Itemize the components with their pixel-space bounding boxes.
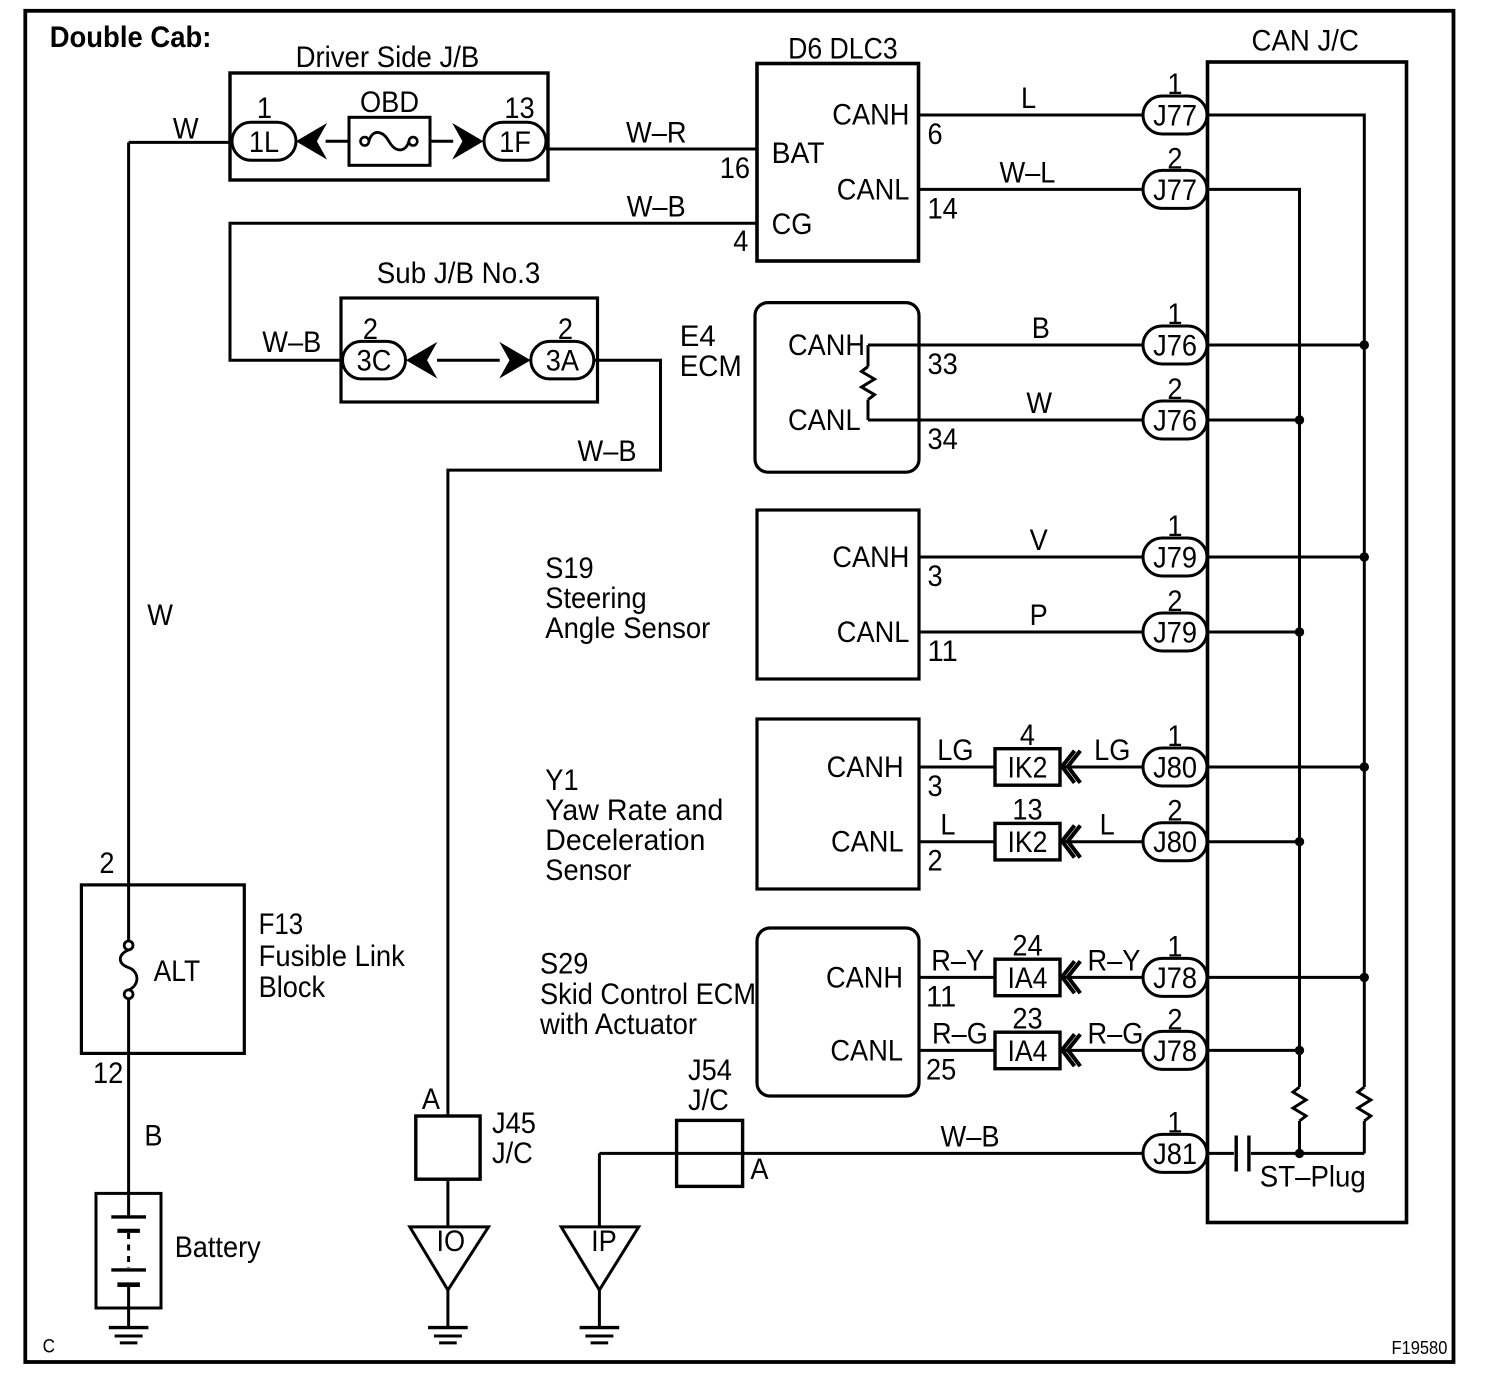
wire W-R — [546, 148, 757, 151]
svg-text:F13: F13 — [259, 908, 304, 941]
ground symbol IP — [580, 1326, 620, 1329]
wire into fuse ALT — [127, 885, 130, 941]
svg-text:CANL: CANL — [788, 404, 861, 437]
battery plate long 2 — [111, 1268, 146, 1271]
CANL bus wire — [1207, 189, 1299, 1087]
svg-text:J81: J81 — [1153, 1138, 1197, 1171]
svg-text:Sub J/B No.3: Sub J/B No.3 — [377, 257, 541, 290]
wire 3C to 3A — [437, 359, 500, 362]
junction dot J79-2 — [1295, 627, 1304, 636]
svg-text:3: 3 — [928, 770, 943, 803]
connector marker IK2 lower — [1062, 826, 1075, 858]
battery dashed cells — [127, 1233, 130, 1268]
svg-text:IA4: IA4 — [1008, 1035, 1048, 1068]
svg-text:CG: CG — [772, 208, 813, 241]
svg-text:16: 16 — [720, 152, 750, 185]
wire ALT to battery — [127, 999, 130, 1194]
junction dot J80-1 — [1360, 762, 1369, 771]
wire W-B from IP to J81 — [599, 1152, 1143, 1155]
svg-text:3A: 3A — [546, 345, 579, 378]
svg-text:CANL: CANL — [837, 616, 910, 649]
junction dot J76-1 — [1360, 340, 1369, 349]
svg-text:R–Y: R–Y — [931, 944, 984, 977]
svg-text:33: 33 — [928, 348, 958, 381]
junction box Driver Side J/B — [230, 73, 548, 180]
junction connector J45 — [416, 1116, 480, 1179]
svg-text:2: 2 — [99, 847, 114, 880]
junction box Sub J/B No.3 — [341, 298, 598, 402]
svg-text:Fusible Link: Fusible Link — [259, 940, 406, 973]
svg-text:CAN J/C: CAN J/C — [1252, 25, 1359, 58]
svg-text:3: 3 — [928, 560, 943, 593]
wire IO to ground — [446, 1290, 449, 1328]
svg-text:14: 14 — [928, 193, 958, 226]
battery plate short 1 — [117, 1229, 139, 1233]
connector marker IA4 upper — [1062, 961, 1075, 993]
svg-text:IK2: IK2 — [1008, 826, 1048, 859]
wire battery to ground — [127, 1285, 130, 1328]
stub J78-1 to CANH bus — [1207, 976, 1364, 979]
component D6 DLC3 — [757, 64, 919, 262]
junction block CAN J/C — [1208, 62, 1407, 1223]
svg-text:IP: IP — [591, 1225, 617, 1258]
junction connector J78 pin 2 — [1143, 1031, 1207, 1069]
svg-text:25: 25 — [926, 1053, 956, 1086]
wire W-L — [919, 188, 1144, 191]
svg-text:L: L — [940, 809, 955, 842]
component E4 ECM — [755, 303, 919, 473]
svg-text:J79: J79 — [1153, 617, 1197, 650]
svg-text:W–R: W–R — [626, 116, 687, 149]
wire CANH to resistor — [867, 345, 870, 367]
svg-text:J45: J45 — [492, 1107, 536, 1140]
svg-text:B: B — [1032, 312, 1050, 345]
connector IK2 lower — [995, 823, 1060, 860]
connector IA4 upper — [995, 959, 1060, 996]
stub J76-2 to CANL bus — [1207, 419, 1299, 422]
svg-text:J77: J77 — [1153, 100, 1197, 133]
svg-text:Double Cab:: Double Cab: — [50, 21, 212, 54]
svg-text:J54: J54 — [688, 1054, 732, 1087]
wire J81 to ST-Plug capacitor — [1207, 1152, 1234, 1155]
connector 1L — [232, 122, 296, 160]
connector marker IA4 lower — [1062, 1034, 1075, 1066]
wire W-B from CG to 3C — [230, 223, 757, 360]
svg-text:CANL: CANL — [837, 174, 910, 207]
svg-text:L: L — [1100, 809, 1115, 842]
svg-text:IA4: IA4 — [1008, 962, 1048, 995]
svg-text:1F: 1F — [499, 126, 531, 159]
splice arrow right 3A — [501, 343, 530, 377]
terminating resistor CANH — [1358, 1087, 1371, 1121]
stub J78-2 to CANL bus — [1207, 1049, 1299, 1052]
svg-text:Yaw Rate and: Yaw Rate and — [545, 794, 723, 827]
svg-text:LG: LG — [1094, 734, 1130, 767]
junction dot J78-1 — [1360, 973, 1369, 982]
wire L left Y1 — [919, 840, 995, 843]
fuse OBD — [349, 117, 430, 165]
fusible link ALT — [124, 941, 133, 950]
wire R-G right — [1060, 1049, 1143, 1052]
svg-text:J76: J76 — [1153, 330, 1197, 363]
svg-text:S29: S29 — [540, 948, 588, 981]
junction connector J79 pin 1 — [1143, 538, 1207, 576]
svg-text:IK2: IK2 — [1008, 752, 1048, 785]
svg-text:12: 12 — [93, 1057, 123, 1090]
svg-text:J/C: J/C — [688, 1084, 729, 1117]
svg-text:W–B: W–B — [941, 1120, 1000, 1153]
svg-text:CANL: CANL — [831, 826, 904, 859]
svg-text:ALT: ALT — [154, 955, 201, 988]
svg-text:Driver Side J/B: Driver Side J/B — [296, 41, 480, 74]
wire R-Y right — [1060, 976, 1143, 979]
wire R-Y left — [919, 976, 995, 979]
svg-text:W: W — [147, 599, 173, 632]
svg-text:J79: J79 — [1153, 542, 1197, 575]
wire LG left — [919, 766, 995, 769]
junction connector J77 pin 2 — [1143, 170, 1207, 208]
svg-text:F19580: F19580 — [1392, 1338, 1448, 1358]
wire J45 to IO — [446, 1179, 449, 1227]
junction dot CANL bottom — [1295, 1149, 1304, 1158]
junction connector J77 pin 1 — [1143, 96, 1207, 134]
ground symbol IO — [428, 1326, 468, 1329]
svg-text:ST–Plug: ST–Plug — [1260, 1161, 1366, 1194]
svg-text:IO: IO — [437, 1225, 466, 1258]
capacitor ST-Plug — [1234, 1136, 1237, 1172]
svg-text:CANH: CANH — [832, 541, 909, 574]
svg-text:CANH: CANH — [826, 961, 903, 994]
svg-text:J77: J77 — [1153, 174, 1197, 207]
svg-text:Sensor: Sensor — [545, 854, 631, 887]
stub J76-1 to CANH bus — [1207, 344, 1364, 347]
wire L right Y1 — [1060, 840, 1143, 843]
svg-text:with Actuator: with Actuator — [539, 1008, 697, 1041]
ground point IO — [410, 1227, 489, 1290]
svg-text:4: 4 — [733, 225, 748, 258]
component S29 Skid Control ECM with Actuator — [757, 928, 919, 1096]
svg-text:Steering: Steering — [545, 582, 646, 615]
component Y1 Yaw Rate and Deceleration Sensor — [757, 719, 919, 889]
svg-text:C: C — [43, 1336, 55, 1357]
wire capacitor to buses — [1251, 1152, 1364, 1155]
svg-text:CANH: CANH — [788, 329, 865, 362]
wire V — [919, 556, 1143, 559]
connector IA4 lower — [995, 1032, 1060, 1069]
svg-text:J80: J80 — [1153, 752, 1197, 785]
svg-text:W–B: W–B — [627, 190, 686, 223]
svg-text:W: W — [1026, 387, 1052, 420]
svg-text:24: 24 — [1012, 929, 1042, 962]
battery plate long 1 — [111, 1215, 146, 1218]
junction connector J80 pin 2 — [1143, 823, 1207, 861]
svg-text:D6 DLC3: D6 DLC3 — [788, 33, 898, 66]
svg-text:1: 1 — [257, 92, 272, 125]
svg-text:Skid Control ECM: Skid Control ECM — [540, 978, 756, 1011]
svg-text:J78: J78 — [1153, 962, 1197, 995]
svg-text:W–B: W–B — [578, 435, 637, 468]
wire P — [919, 631, 1143, 634]
wire W — [868, 419, 1143, 422]
ground symbol battery — [109, 1326, 149, 1329]
svg-text:J/C: J/C — [492, 1137, 533, 1170]
svg-text:J78: J78 — [1153, 1035, 1197, 1068]
svg-text:Y1: Y1 — [545, 764, 578, 797]
wire B — [868, 344, 1143, 347]
wire LG right — [1060, 766, 1143, 769]
junction dot J78-2 — [1295, 1046, 1304, 1055]
svg-text:2: 2 — [928, 845, 943, 878]
wire W-B from 3A — [448, 360, 661, 1116]
CANH bus wire — [1207, 115, 1364, 1087]
component F13 Fusible Link Block — [81, 885, 244, 1054]
junction connector J80 pin 1 — [1143, 748, 1207, 786]
svg-text:P: P — [1030, 599, 1048, 632]
wire 1L to fuse OBD — [326, 140, 349, 143]
svg-text:6: 6 — [928, 118, 943, 151]
svg-text:11: 11 — [928, 635, 958, 668]
wire resistor to CANL — [867, 400, 870, 420]
wire W vertical — [127, 142, 130, 885]
CANH bus below resistor — [1363, 1121, 1366, 1153]
junction connector J76 pin 2 — [1143, 401, 1207, 439]
svg-text:W: W — [173, 113, 199, 146]
svg-text:W–B: W–B — [262, 326, 321, 359]
connector 1F — [484, 122, 546, 160]
svg-text:J76: J76 — [1153, 405, 1197, 438]
svg-text:Deceleration: Deceleration — [545, 824, 705, 857]
junction connector J81 pin 1 — [1143, 1134, 1207, 1172]
connector IK2 upper — [995, 749, 1060, 786]
svg-text:34: 34 — [928, 423, 958, 456]
svg-text:W–L: W–L — [1000, 156, 1056, 189]
junction connector J76 pin 1 — [1143, 326, 1207, 364]
svg-text:A: A — [422, 1083, 440, 1116]
stub J79-2 to CANL bus — [1207, 631, 1299, 634]
svg-text:ECM: ECM — [680, 350, 742, 383]
stub J79-1 to CANH bus — [1207, 556, 1364, 559]
svg-text:LG: LG — [937, 734, 973, 767]
svg-text:Angle Sensor: Angle Sensor — [545, 612, 710, 645]
wire IP to ground — [598, 1290, 601, 1328]
stub J80-1 to CANH bus — [1207, 766, 1364, 769]
svg-text:1L: 1L — [249, 126, 279, 159]
connector 3A — [531, 341, 594, 379]
junction dot J79-1 — [1360, 552, 1369, 561]
CANL bus below resistor — [1298, 1121, 1301, 1153]
svg-text:OBD: OBD — [360, 86, 419, 119]
svg-text:R–Y: R–Y — [1088, 944, 1141, 977]
wire W horizontal — [129, 141, 232, 144]
svg-text:S19: S19 — [545, 552, 593, 585]
wire R-G left — [919, 1049, 995, 1052]
svg-text:3C: 3C — [357, 345, 392, 378]
svg-text:CANH: CANH — [832, 99, 909, 132]
svg-text:BAT: BAT — [772, 137, 825, 170]
svg-text:CANH: CANH — [827, 751, 904, 784]
svg-text:11: 11 — [926, 980, 956, 1013]
svg-text:V: V — [1030, 524, 1048, 557]
component S19 Steering Angle Sensor — [757, 510, 919, 679]
battery plate short 2 — [117, 1282, 139, 1287]
svg-text:13: 13 — [504, 92, 534, 125]
junction dot J76-2 — [1295, 415, 1304, 424]
terminating resistor in ECM — [862, 367, 875, 400]
svg-text:23: 23 — [1012, 1002, 1042, 1035]
wire J54 to IP — [598, 1153, 601, 1227]
connector 3C — [343, 341, 406, 379]
junction dot J80-2 — [1295, 837, 1304, 846]
ground point IP — [561, 1227, 639, 1290]
battery — [96, 1193, 161, 1308]
svg-text:R–G: R–G — [1088, 1017, 1144, 1050]
svg-text:CANL: CANL — [830, 1034, 903, 1067]
wire L — [919, 114, 1144, 117]
junction connector J78 pin 1 — [1143, 958, 1207, 996]
svg-text:Block: Block — [259, 971, 326, 1004]
wire fuse OBD to 1F — [430, 140, 453, 143]
splice arrow left 3C — [407, 343, 436, 377]
svg-text:A: A — [750, 1153, 768, 1186]
splice arrow right — [454, 124, 483, 158]
junction connector J54 — [677, 1120, 743, 1186]
svg-text:J80: J80 — [1153, 826, 1197, 859]
svg-text:L: L — [1021, 82, 1036, 115]
svg-text:E4: E4 — [680, 320, 716, 353]
svg-text:Battery: Battery — [175, 1231, 261, 1264]
stub J80-2 to CANL bus — [1207, 840, 1299, 843]
svg-text:R–G: R–G — [932, 1017, 988, 1050]
terminating resistor CANL — [1293, 1087, 1306, 1121]
junction connector J79 pin 2 — [1143, 613, 1207, 651]
svg-text:B: B — [144, 1120, 162, 1153]
connector marker IK2 upper — [1062, 751, 1075, 783]
splice arrow left — [297, 124, 326, 158]
